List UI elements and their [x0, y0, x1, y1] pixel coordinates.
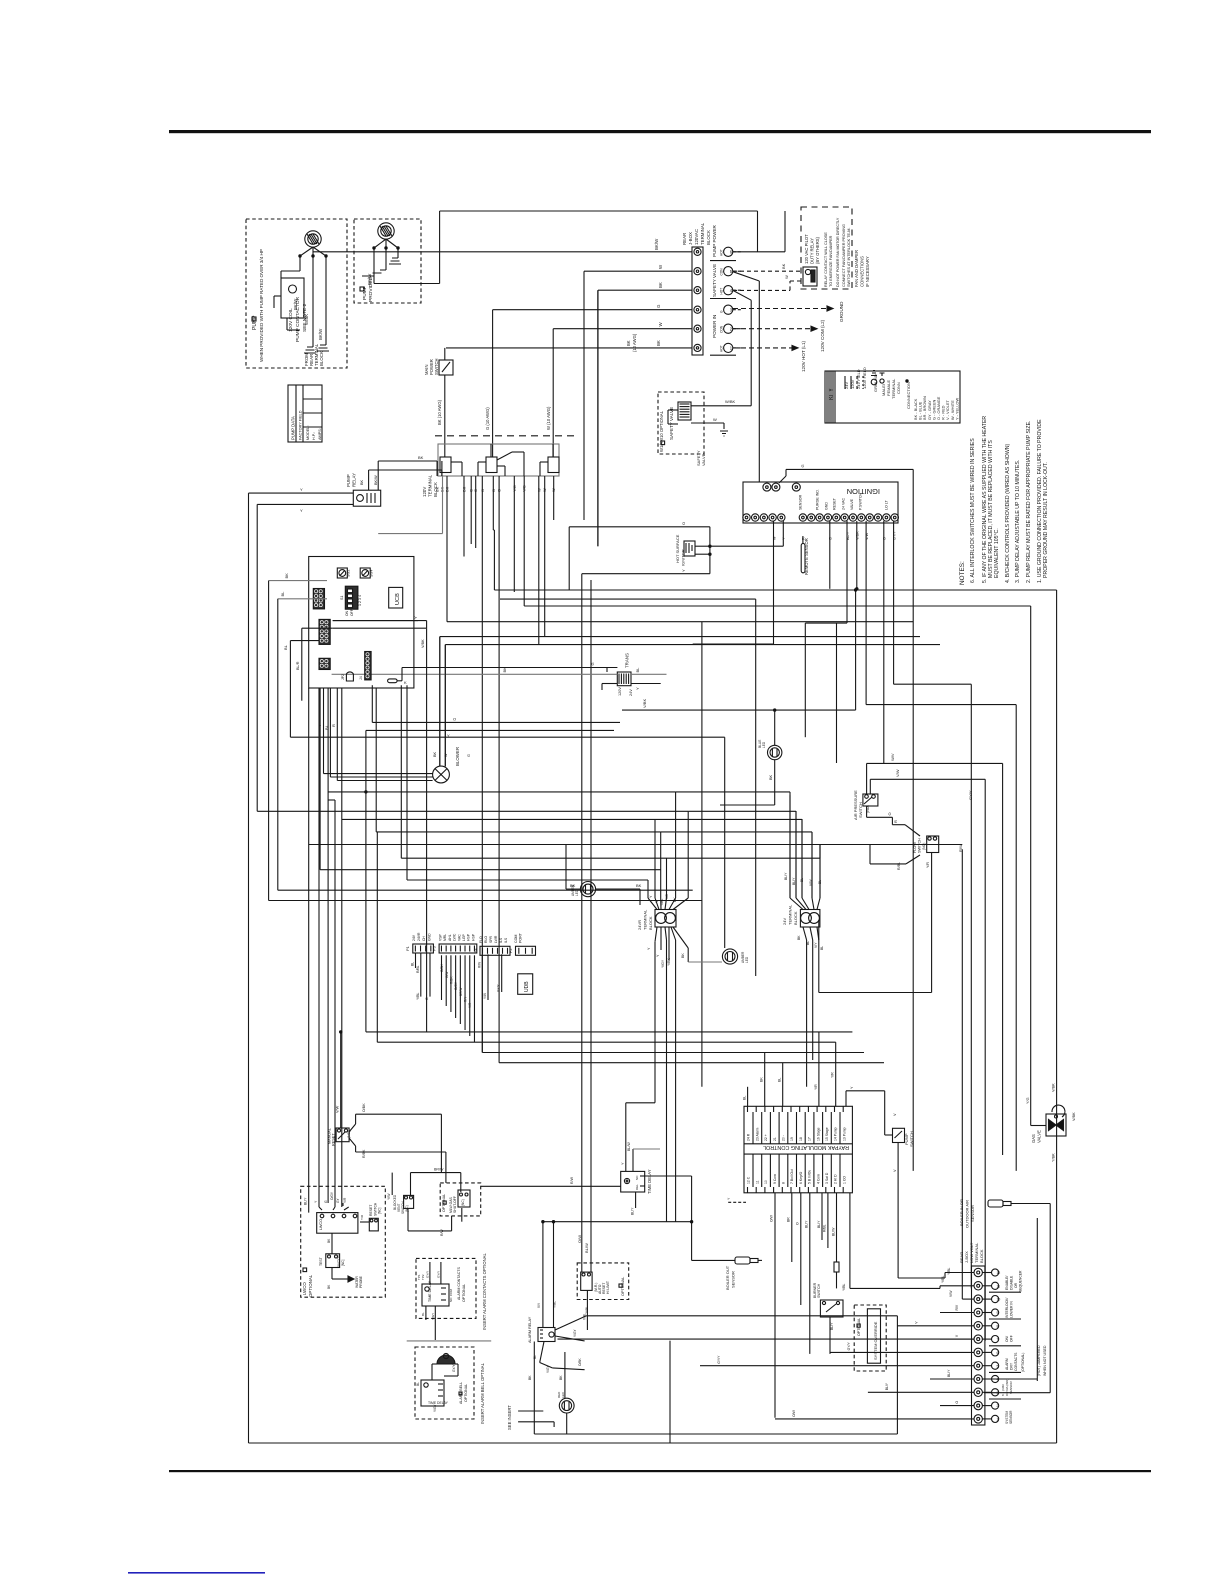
svg-text:BL: BL [743, 1096, 747, 1100]
svg-text:(NC): (NC) [461, 1199, 465, 1206]
svg-text:W: W [444, 753, 448, 757]
svg-text:14 Pump: 14 Pump [834, 1127, 838, 1141]
svg-text:SW2: SW2 [347, 570, 351, 577]
svg-text:TO ENERGIZE FAN/DAMPER: TO ENERGIZE FAN/DAMPER [829, 235, 833, 287]
svg-text:R/BK: R/BK [362, 1149, 366, 1158]
svg-text:Y/R: Y/R [831, 1072, 835, 1078]
svg-text:Y/BL: Y/BL [585, 1306, 589, 1313]
svg-text:MRL: MRL [443, 934, 447, 941]
svg-text:GY/Y: GY/Y [892, 530, 896, 540]
svg-text:BL: BL [411, 962, 415, 966]
svg-text:Y/BL: Y/BL [842, 1284, 846, 1291]
svg-text:Y/BL: Y/BL [553, 1301, 557, 1308]
svg-text:RLO: RLO [484, 936, 488, 943]
svg-text:BL: BL [778, 1078, 782, 1082]
svg-text:BL/Y: BL/Y [846, 531, 850, 540]
svg-text:G/W: G/W [445, 972, 449, 978]
svg-text:BLOCK: BLOCK [319, 351, 324, 366]
svg-text:FLOW: FLOW [913, 842, 917, 853]
svg-text:P2: P2 [508, 948, 513, 954]
svg-text:PUMP POWER: PUMP POWER [712, 224, 717, 257]
svg-text:120VAC: 120VAC [694, 229, 699, 245]
svg-text:24V: 24V [412, 934, 416, 941]
svg-text:120V COM (L2): 120V COM (L2) [820, 319, 825, 352]
svg-text:Y/R: Y/R [360, 1214, 364, 1220]
svg-text:V/Y: V/Y [537, 1302, 541, 1308]
svg-text:RAYPAK MODULATING CONTROL: RAYPAK MODULATING CONTROL [763, 1144, 849, 1150]
svg-text:V/W: V/W [865, 532, 869, 540]
svg-text:Y/BL: Y/BL [941, 1276, 945, 1283]
svg-text:Y/R: Y/R [814, 1084, 818, 1090]
svg-text:BL: BL [806, 941, 810, 945]
svg-text:RESET: RESET [369, 1205, 373, 1216]
svg-text:BK: BK [626, 340, 631, 346]
svg-text:DEL: DEL [635, 1184, 639, 1190]
svg-text:V/W: V/W [336, 1105, 340, 1113]
svg-text:3 Sat D: 3 Sat D [825, 1172, 829, 1184]
svg-text:BK (10 AWG): BK (10 AWG) [437, 399, 442, 425]
svg-text:Y: Y [300, 487, 303, 492]
svg-text:7: 7 [997, 1338, 999, 1342]
svg-text:SAFETY VALVE: SAFETY VALVE [669, 407, 674, 440]
svg-text:10: 10 [997, 1298, 1001, 1302]
svg-text:Y: Y [681, 569, 686, 572]
svg-text:2 Ht D: 2 Ht D [834, 1174, 838, 1184]
svg-text:G: G [590, 662, 595, 665]
svg-text:1 2 3 4: 1 2 3 4 [358, 595, 362, 606]
svg-text:G: G [425, 997, 429, 1000]
svg-text:SWITCH: SWITCH [434, 358, 439, 375]
svg-text:SAFETY VALVE: SAFETY VALVE [712, 264, 717, 297]
svg-text:FACTORY FIELD: FACTORY FIELD [299, 410, 303, 440]
svg-text:6. ALL INTERLOCK SWITCHES MUST: 6. ALL INTERLOCK SWITCHES MUST BE WIRED … [970, 438, 976, 583]
svg-text:ALARM: ALARM [1005, 1358, 1009, 1370]
svg-text:7 Boil Out: 7 Boil Out [790, 1169, 794, 1184]
svg-text:GY/Y: GY/Y [452, 1364, 456, 1372]
svg-text:BK: BK [781, 263, 786, 269]
svg-text:TEST: TEST [319, 1257, 323, 1266]
svg-text:BL: BL [283, 644, 288, 650]
svg-text:TIME DELAY: TIME DELAY [428, 1401, 449, 1405]
svg-text:4 Com: 4 Com [816, 1174, 820, 1184]
svg-text:BLOCK: BLOCK [648, 916, 653, 930]
svg-text:LWR: LWR [494, 935, 498, 943]
svg-text:S1: S1 [340, 596, 344, 600]
svg-text:ENABLE/: ENABLE/ [1005, 1276, 1009, 1290]
svg-text:PROBE: PROBE [359, 1275, 363, 1288]
svg-text:O: O [887, 812, 892, 815]
svg-text:V/BK: V/BK [421, 639, 425, 648]
svg-text:W: W [772, 536, 776, 540]
svg-text:IF NECESSARY: IF NECESSARY [865, 256, 870, 287]
svg-text:22 +: 22 + [764, 1134, 768, 1141]
svg-text:HSP: HSP [471, 933, 475, 941]
svg-text:Y/BL: Y/BL [947, 1268, 951, 1275]
svg-text:SEE INSERT: SEE INSERT [507, 1405, 512, 1430]
svg-text:VALVE: VALVE [1037, 1130, 1042, 1143]
svg-text:GROUND: GROUND [873, 374, 878, 392]
svg-text:NO: NO [449, 1297, 453, 1302]
svg-text:BL/Y: BL/Y [830, 1322, 834, 1330]
svg-text:[NC]: [NC] [378, 1208, 382, 1214]
svg-text:G (10 AWG): G (10 AWG) [485, 407, 490, 430]
svg-text:R/W: R/W [570, 1176, 574, 1184]
svg-text:UCB: UCB [395, 593, 401, 605]
svg-text:BL: BL [416, 1382, 420, 1386]
svg-text:V/W: V/W [895, 769, 900, 777]
svg-text:17: 17 [808, 1137, 812, 1141]
svg-text:BL: BL [421, 1312, 425, 1316]
svg-text:BL/Y: BL/Y [631, 1207, 635, 1215]
svg-text:BLOCK: BLOCK [706, 230, 711, 245]
svg-text:24V FIELD: 24V FIELD [856, 369, 861, 389]
svg-text:COM: COM [514, 935, 518, 943]
svg-text:SWITCHES AT INTERLOCK TE-M.: SWITCHES AT INTERLOCK TE-M. [847, 228, 851, 288]
svg-text:O/W: O/W [792, 1409, 796, 1417]
svg-text:CON: CON [720, 268, 724, 276]
svg-text:ON/: ON/ [1005, 1336, 1009, 1342]
svg-text:ALARM RELAY: ALARM RELAY [528, 1316, 532, 1343]
svg-text:ILS: ILS [499, 937, 503, 943]
svg-text:ILS: ILS [504, 937, 508, 943]
svg-text:FAN AND DAMPER: FAN AND DAMPER [854, 250, 859, 287]
svg-text:Y: Y [300, 508, 303, 513]
svg-text:BL/W: BL/W [584, 1243, 589, 1253]
svg-text:120V COIL: 120V COIL [288, 308, 294, 332]
svg-text:VAC: VAC [457, 934, 461, 941]
svg-text:BK/W: BK/W [318, 328, 323, 340]
svg-text:WHEN PROVIDED WITH PUMP RATED: WHEN PROVIDED WITH PUMP RATED OVER 3/4 H… [259, 249, 264, 362]
svg-text:HOT: HOT [720, 288, 724, 295]
svg-text:Y/GY: Y/GY [573, 1329, 577, 1337]
svg-text:LWCO: LWCO [319, 1219, 323, 1230]
svg-text:BL/Y: BL/Y [784, 872, 788, 880]
svg-text:IGNITOR: IGNITOR [681, 549, 686, 566]
svg-text:PUMP: PUMP [346, 474, 351, 487]
svg-text:O/GY: O/GY [330, 1191, 334, 1200]
svg-text:BK/W: BK/W [374, 475, 378, 485]
svg-text:TERMINAL: TERMINAL [788, 904, 793, 925]
svg-text:DISABLE: DISABLE [1010, 1275, 1014, 1290]
svg-text:R/BL: R/BL [823, 1224, 827, 1232]
svg-text:MODEL:: MODEL: [306, 425, 310, 440]
svg-text:120V: 120V [850, 379, 855, 389]
svg-text:BK: BK [658, 282, 663, 288]
svg-text:(10 AWG): (10 AWG) [632, 333, 637, 352]
svg-text:LED: LED [745, 956, 749, 963]
svg-text:BL/Y: BL/Y [947, 1369, 951, 1377]
svg-text:BOILER IN OR: BOILER IN OR [959, 1199, 964, 1226]
svg-text:NO: NO [635, 1175, 639, 1180]
svg-text:1: 1 [997, 1418, 999, 1422]
svg-text:GY/Y: GY/Y [717, 1355, 721, 1364]
svg-text:BL/Y: BL/Y [304, 1197, 308, 1205]
svg-text:W: W [784, 275, 789, 279]
svg-text:BL/Y: BL/Y [885, 1382, 889, 1390]
svg-text:GY/Y: GY/Y [968, 790, 973, 800]
svg-text:IGNITION: IGNITION [847, 487, 880, 496]
svg-text:BL: BL [635, 667, 640, 673]
svg-text:10: 10 [764, 1180, 768, 1184]
svg-text:INSERT ALARM BELL OPTINAL: INSERT ALARM BELL OPTINAL [480, 1362, 485, 1424]
svg-text:W/BK: W/BK [725, 399, 736, 404]
svg-text:24VR: 24VR [417, 932, 421, 941]
svg-text:GND: GND [825, 502, 829, 510]
svg-text:R/V: R/V [955, 1304, 959, 1310]
svg-text:CONN: CONN [896, 382, 901, 394]
svg-text:G: G [800, 464, 805, 467]
svg-text:1 CO: 1 CO [842, 1176, 846, 1184]
svg-text:SPR: SPR [489, 935, 493, 943]
svg-text:21: 21 [773, 1137, 777, 1141]
svg-text:BL/W: BL/W [831, 1227, 835, 1236]
svg-text:BK: BK [418, 455, 424, 460]
svg-text:DRY: DRY [1010, 1362, 1014, 1370]
svg-text:GAS: GAS [1031, 1134, 1036, 1143]
svg-text:BL: BL [280, 591, 285, 597]
svg-text:SENSOR: SENSOR [1009, 1410, 1013, 1424]
svg-text:POWER IN: POWER IN [712, 315, 717, 338]
svg-text:Y/W: Y/W [387, 1193, 391, 1200]
svg-text:Y/BK: Y/BK [667, 958, 671, 966]
svg-text:8: 8 [997, 1324, 999, 1328]
svg-text:PUMP: PUMP [362, 286, 368, 300]
svg-text:BR/W: BR/W [459, 988, 463, 996]
svg-text:24VR: 24VR [637, 920, 642, 930]
svg-text:24V: 24V [629, 689, 633, 696]
svg-text:UDB: UDB [524, 981, 530, 992]
svg-text:Y/BL: Y/BL [416, 993, 420, 1000]
svg-text:BK: BK [636, 883, 642, 888]
svg-text:Y/BK: Y/BK [1052, 1153, 1056, 1162]
svg-text:SENSOR: SENSOR [970, 1205, 975, 1222]
svg-text:V/BK: V/BK [1052, 1083, 1056, 1092]
svg-text:120 VAC PILOT: 120 VAC PILOT [804, 234, 809, 264]
svg-text:4. B/CHECK CONTROLS PROVIDED (: 4. B/CHECK CONTROLS PROVIDED (WIRED AS S… [1005, 444, 1011, 583]
svg-text:OFF: OFF [1010, 1335, 1014, 1342]
svg-text:PORT: PORT [519, 932, 523, 943]
svg-text:LWC: LWC [453, 933, 457, 941]
svg-text:R: R [331, 724, 336, 727]
svg-text:BK: BK [760, 1077, 764, 1082]
svg-text:LED: LED [762, 741, 766, 748]
svg-text:BR/W: BR/W [434, 1168, 444, 1172]
svg-text:R: R [802, 537, 806, 540]
svg-text:BK: BK [681, 953, 685, 958]
svg-text:O: O [681, 522, 686, 525]
svg-text:PURGE IND.: PURGE IND. [816, 489, 820, 510]
svg-text:FLO: FLO [479, 936, 483, 943]
svg-text:120V: 120V [422, 487, 427, 497]
svg-text:9: 9 [997, 1311, 999, 1315]
svg-text:3. PUMP DELAY ADJUSTABLE UP TO: 3. PUMP DELAY ADJUSTABLE UP TO 10 MINUTE… [1015, 460, 1021, 583]
svg-text:5 B In/Ou: 5 B In/Ou [808, 1170, 812, 1184]
svg-text:REMOTE SENSOR: REMOTE SENSOR [804, 538, 809, 575]
svg-text:11: 11 [997, 1284, 1001, 1288]
svg-text:HSP: HSP [467, 933, 471, 941]
svg-text:INTERLOCK/: INTERLOCK/ [1005, 1298, 1009, 1318]
svg-text:BK/W: BK/W [293, 298, 298, 310]
svg-text:BL/Y: BL/Y [817, 1220, 821, 1228]
svg-text:6 Key/O: 6 Key/O [799, 1171, 803, 1184]
svg-text:19: 19 [790, 1137, 794, 1141]
svg-text:J-BOX: J-BOX [688, 232, 693, 245]
svg-text:V/BK: V/BK [1072, 1112, 1076, 1121]
svg-text:120V FIELD: 120V FIELD [862, 367, 867, 389]
svg-text:G: G [656, 304, 661, 308]
svg-text:Y: Y [782, 537, 786, 540]
svg-text:VALVE: VALVE [850, 498, 854, 510]
svg-text:CONTACTS: CONTACTS [1014, 1352, 1018, 1371]
svg-text:Y/G: Y/G [1026, 1097, 1030, 1104]
svg-text:W (10 AWG): W (10 AWG) [546, 406, 551, 430]
svg-text:J4: J4 [359, 676, 363, 680]
svg-text:SENSOR: SENSOR [731, 1271, 736, 1288]
svg-text:ALARM CONTACTS: ALARM CONTACTS [457, 1267, 461, 1300]
svg-text:KEY: KEY [829, 388, 835, 400]
svg-text:R/BL: R/BL [897, 862, 901, 870]
svg-text:SWITCH: SWITCH [918, 838, 922, 853]
svg-text:TIME DELAY: TIME DELAY [647, 1169, 652, 1194]
svg-text:O/W: O/W [770, 1214, 774, 1222]
svg-text:O/GY: O/GY [454, 981, 458, 990]
svg-text:24V: 24V [782, 918, 787, 925]
svg-text:16 Stage: 16 Stage [816, 1127, 820, 1141]
svg-text:Y/G: Y/G [665, 894, 669, 900]
svg-text:INSERT ALARM CONTACTS OPTIONAL: INSERT ALARM CONTACTS OPTIONAL [482, 1253, 487, 1330]
svg-text:(NO): (NO) [922, 843, 926, 850]
svg-text:3: 3 [997, 1391, 999, 1395]
svg-text:GROUND: GROUND [839, 301, 844, 322]
svg-text:BL/R: BL/R [296, 661, 300, 670]
svg-text:Y/R: Y/R [343, 1197, 347, 1203]
svg-text:TERMINAL: TERMINAL [643, 909, 648, 930]
svg-text:SWITCH: SWITCH [817, 1283, 821, 1298]
svg-text:TP2: TP2 [421, 1274, 425, 1280]
svg-text:Y: Y [621, 1162, 625, 1165]
svg-text:HOT: HOT [720, 345, 724, 352]
svg-text:BK/W: BK/W [367, 273, 372, 285]
svg-text:G: G [829, 537, 833, 540]
svg-text:12 C: 12 C [747, 1176, 751, 1184]
svg-text:(HOT) JAMPERED: (HOT) JAMPERED [1037, 1345, 1041, 1376]
svg-text:O/BK: O/BK [578, 1358, 582, 1366]
svg-text:Y/BL: Y/BL [660, 899, 664, 906]
svg-text:2. PUMP RELAY MUST BE RATED FO: 2. PUMP RELAY MUST BE RATED FOR APPROPRI… [1026, 421, 1032, 583]
svg-text:P4: P4 [473, 948, 478, 954]
svg-text:24V: 24V [844, 382, 849, 389]
svg-text:BL/W: BL/W [627, 1142, 631, 1151]
svg-text:RESET: RESET [332, 1133, 336, 1146]
svg-text:NOTES:: NOTES: [959, 561, 966, 585]
svg-text:DUTY RELAY: DUTY RELAY [810, 238, 815, 264]
svg-text:LED: LED [575, 889, 579, 896]
svg-text:O: O [796, 1222, 800, 1225]
svg-text:V/Y: V/Y [814, 942, 818, 948]
svg-text:O/W: O/W [577, 1235, 582, 1243]
svg-text:TERMINAL: TERMINAL [700, 222, 705, 245]
svg-text:SENSOR: SENSOR [799, 494, 803, 510]
svg-text:12: 12 [997, 1271, 1001, 1275]
svg-text:P.SWITCH: P.SWITCH [859, 492, 863, 510]
svg-text:Y/R: Y/R [926, 862, 930, 868]
svg-text:Y/GY: Y/GY [431, 1313, 435, 1320]
svg-text:BL: BL [820, 946, 824, 950]
svg-text:O/BK: O/BK [362, 1103, 366, 1112]
svg-text:O/BK: O/BK [440, 964, 444, 972]
svg-text:Y: Y [413, 616, 418, 619]
svg-text:G: G [467, 754, 471, 757]
svg-text:HOT: HOT [720, 249, 724, 256]
svg-text:V/W: V/W [949, 1290, 953, 1297]
svg-text:R/BL: R/BL [416, 965, 420, 973]
svg-text:OPTIONAL: OPTIONAL [462, 1284, 466, 1302]
svg-text:W1/AW10 OPTIONAL: W1/AW10 OPTIONAL [659, 410, 664, 452]
svg-text:Y - YELLOW: Y - YELLOW [954, 398, 959, 420]
svg-text:AHL: AHL [448, 934, 452, 941]
svg-text:120V: 120V [618, 687, 622, 696]
svg-text:BL/Y: BL/Y [792, 877, 796, 885]
svg-text:BK: BK [656, 340, 661, 346]
svg-text:Y/R: Y/R [468, 1002, 472, 1008]
svg-text:SENSOR: SENSOR [1009, 1380, 1013, 1394]
svg-text:BK: BK [284, 573, 289, 579]
svg-text:RESET: RESET [833, 497, 837, 510]
svg-text:V/BK: V/BK [642, 699, 647, 708]
svg-text:4: 4 [997, 1378, 999, 1382]
svg-text:BL: BL [533, 1355, 537, 1359]
svg-text:G: G [324, 1200, 328, 1203]
svg-text:JP2: JP2 [341, 674, 345, 680]
svg-text:Y/GY: Y/GY [546, 1365, 550, 1373]
svg-text:Y/GY: Y/GY [661, 959, 665, 968]
svg-text:W: W [713, 417, 717, 422]
svg-text:GND: GND [427, 933, 431, 941]
svg-text:O: O [453, 717, 456, 722]
svg-text:BLOWER: BLOWER [455, 747, 460, 766]
svg-text:HI LIMIT: HI LIMIT [606, 1281, 610, 1294]
svg-text:RELAY: RELAY [352, 473, 357, 487]
svg-text:Y/W: Y/W [483, 993, 487, 999]
svg-text:20 -: 20 - [782, 1135, 786, 1141]
svg-text:9 Com: 9 Com [773, 1174, 777, 1184]
svg-text:BK: BK [528, 1375, 532, 1380]
svg-text:SWITCH: SWITCH [858, 802, 863, 818]
svg-text:OPTIONAL: OPTIONAL [308, 1274, 313, 1297]
svg-text:VALVE: VALVE [701, 453, 706, 466]
svg-text:11: 11 [755, 1180, 759, 1184]
svg-text:R/Y: R/Y [464, 996, 468, 1002]
svg-text:K: K [404, 680, 407, 685]
svg-text:[NC]: [NC] [341, 1260, 345, 1266]
svg-text:CONNECT FAN/DAMPER PROVING: CONNECT FAN/DAMPER PROVING [842, 224, 846, 287]
svg-text:15 Stage: 15 Stage [825, 1127, 829, 1141]
svg-text:LWCO: LWCO [302, 1282, 307, 1295]
svg-text:BK: BK [433, 751, 437, 757]
svg-text:BK: BK [502, 667, 507, 673]
svg-text:R/W: R/W [477, 962, 481, 968]
svg-text:PROPER GROUND MAY RESULT IN LO: PROPER GROUND MAY RESULT IN LOCK-OUT. [1043, 462, 1049, 578]
svg-text:OFF: OFF [350, 609, 354, 616]
svg-text:ON: ON [345, 610, 349, 616]
svg-text:OPTIONAL: OPTIONAL [464, 1384, 468, 1402]
svg-text:R/BK: R/BK [450, 976, 454, 984]
svg-text:(OPTIONAL): (OPTIONAL) [1021, 1353, 1025, 1372]
svg-text:BK/W: BK/W [654, 238, 659, 250]
svg-text:BLOCK: BLOCK [793, 911, 798, 925]
svg-text:CONNECTION: CONNECTION [906, 382, 911, 409]
svg-text:BLOCK: BLOCK [979, 1249, 984, 1263]
